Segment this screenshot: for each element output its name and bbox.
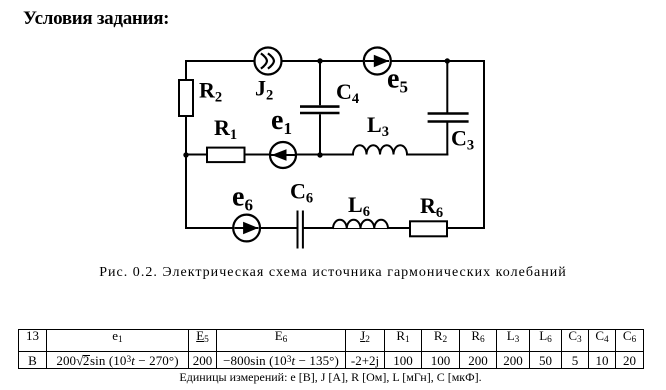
svg-text:e5: e5 <box>387 64 408 97</box>
svg-text:R2: R2 <box>199 78 222 106</box>
svg-text:C3: C3 <box>451 126 474 154</box>
svg-text:J2: J2 <box>255 75 273 103</box>
svg-text:e1: e1 <box>271 105 292 138</box>
svg-text:C6: C6 <box>290 179 313 207</box>
svg-text:R6: R6 <box>420 193 443 221</box>
svg-text:L3: L3 <box>367 112 389 140</box>
svg-text:L6: L6 <box>348 192 370 220</box>
svg-text:C4: C4 <box>336 79 359 107</box>
svg-text:R1: R1 <box>214 115 237 143</box>
svg-text:e6: e6 <box>232 182 253 215</box>
